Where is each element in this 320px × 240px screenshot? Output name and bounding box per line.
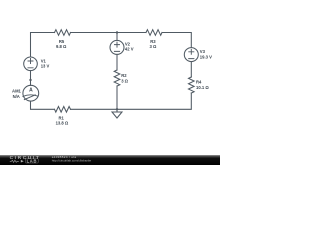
resistor R4 (189, 77, 195, 93)
svg-text:http://circuitlab.com/c6sbaxbe: http://circuitlab.com/c6sbaxbe (52, 158, 92, 162)
bottom node junction dot (116, 108, 118, 110)
node below V1 junction dot (29, 79, 31, 81)
voltage source V1 (24, 57, 38, 71)
wire R2 to bottom node (116, 86, 118, 109)
svg-text:19.3 V: 19.3 V (200, 54, 212, 59)
svg-text:N/A: N/A (13, 94, 20, 99)
svg-text:A: A (29, 88, 33, 94)
svg-text:LAB: LAB (27, 158, 38, 163)
svg-text:10.1 Ω: 10.1 Ω (196, 85, 209, 90)
wire R4 to bottom-right corner (117, 93, 191, 109)
watermark bar (0, 155, 220, 165)
svg-text:3 Ω: 3 Ω (149, 44, 156, 49)
resistor R3 (146, 30, 162, 36)
wire top-left corner to R5 (31, 33, 55, 58)
voltage source V3 (184, 48, 198, 62)
node T junction dot (116, 31, 118, 33)
wire R5 to node T (71, 32, 118, 34)
watermark credit text (52, 155, 92, 163)
svg-text:13.8 Ω: 13.8 Ω (56, 121, 69, 126)
voltage source V2 (110, 40, 124, 54)
svg-text:3 Ω: 3 Ω (121, 78, 128, 83)
wire middle node down to V2 (116, 33, 118, 41)
resistor R2 (114, 70, 120, 86)
wire V2 to R2 (116, 54, 118, 70)
resistor R5 (55, 30, 71, 36)
svg-text:R2: R2 (121, 73, 127, 78)
svg-text:R4: R4 (196, 80, 202, 85)
resistor R1 (54, 107, 70, 113)
svg-text:AM1: AM1 (12, 88, 22, 93)
CircuitLab logo (10, 155, 41, 163)
ground (112, 109, 122, 118)
svg-text:13 V: 13 V (41, 64, 50, 69)
wire V3 to R4 (190, 62, 192, 77)
ammeter AM1 (23, 85, 39, 101)
wire R1 to bottom-left corner up to ammeter (31, 101, 55, 109)
wire ammeter to node below V1 (30, 80, 32, 85)
wire bottom node to R1 (71, 108, 118, 110)
svg-text:9.8 Ω: 9.8 Ω (56, 44, 67, 49)
svg-text:42 V: 42 V (125, 47, 134, 52)
wire R3 to top-right corner (162, 33, 191, 48)
wire node to V1 (30, 71, 32, 80)
wire node T to R3 (117, 32, 146, 34)
